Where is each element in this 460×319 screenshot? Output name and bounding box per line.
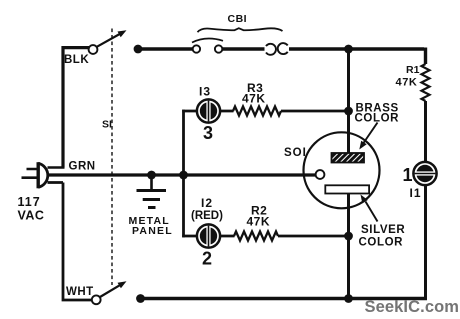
svg-text:BLK: BLK <box>64 54 89 66</box>
svg-text:COLOR: COLOR <box>359 237 404 249</box>
svg-text:47K: 47K <box>242 92 266 106</box>
wire: bottom bus <box>141 297 428 300</box>
wire: top bus from S1 dot to CB1 contacts <box>138 47 193 50</box>
svg-text:SOI: SOI <box>284 147 307 159</box>
wire: GRN line from plug to socket pin <box>49 173 316 176</box>
socket SO1 silver contact <box>325 185 369 193</box>
wire: BLK vertical left rail <box>63 48 89 168</box>
resistor R1 <box>422 64 430 101</box>
svg-text:SI: SI <box>102 119 112 131</box>
wire: breaker rings to top-right corner <box>289 48 426 65</box>
node: GRN / lamp branch <box>179 171 188 180</box>
node: GRN / ground <box>147 171 156 180</box>
resistor R3 <box>233 107 281 116</box>
svg-text:1: 1 <box>403 165 413 185</box>
switch S1 mechanical link (dashed) <box>111 29 113 286</box>
node: bottom bus / silver drop <box>344 294 353 303</box>
svg-text:I1: I1 <box>410 186 422 200</box>
svg-text:VAC: VAC <box>18 209 45 223</box>
socket SO1 brass contact <box>332 153 365 163</box>
circuit breaker CB1: actuator arc <box>192 39 223 43</box>
plug P1 117 VAC <box>22 162 48 188</box>
svg-text:CBI: CBI <box>228 13 248 25</box>
circuit breaker CB1: interlocked rings <box>266 44 276 55</box>
svg-text:PANEL: PANEL <box>132 225 173 237</box>
lamp I3 <box>197 99 220 122</box>
svg-text:WHT: WHT <box>66 286 94 298</box>
node: top bus / brass drop <box>344 45 353 54</box>
wire: vertical branch I3 to I2 <box>182 110 185 238</box>
node: R3 / brass drop <box>344 107 353 116</box>
wire: silver drop from socket to bottom bus <box>347 193 350 300</box>
svg-text:SeekIC.com: SeekIC.com <box>365 298 460 316</box>
wire: right rail R1/I1 <box>424 101 427 299</box>
ground (metal panel) <box>137 176 167 208</box>
svg-text:2: 2 <box>202 249 212 269</box>
socket SO1 side pin <box>316 170 325 179</box>
wire: brass drop from top bus into socket <box>347 48 350 155</box>
svg-text:R1: R1 <box>406 64 420 76</box>
svg-text:117: 117 <box>18 195 41 209</box>
svg-text:47K: 47K <box>247 215 271 229</box>
lamp I2 <box>197 224 220 247</box>
wire: R3 output to brass node <box>281 110 350 113</box>
socket SO1 body <box>304 132 380 208</box>
svg-text:47K: 47K <box>396 77 418 89</box>
wire: I2 leads <box>182 235 234 238</box>
svg-text:I3: I3 <box>199 85 211 99</box>
wire: CB1 contacts to breaker rings <box>222 47 264 50</box>
wire: plug bottom lead and WHT rail <box>48 183 92 301</box>
svg-text:3: 3 <box>203 123 213 143</box>
brace for CB1 <box>198 28 283 32</box>
wire: R2 output to silver node <box>278 235 350 238</box>
node: bottom bus at WHT switch <box>136 294 145 303</box>
wire: plug top lead to BLK rail <box>48 166 65 169</box>
switch S1 upper pole (BLK) <box>89 45 98 54</box>
wire: I3 leads <box>182 110 233 113</box>
resistor R2 <box>234 232 278 241</box>
switch S1 lower pole (WHT) <box>92 295 101 304</box>
lamp I1 <box>413 162 436 185</box>
svg-text:SILVER: SILVER <box>361 224 405 236</box>
svg-text:(RED): (RED) <box>191 210 223 222</box>
node: R2 / silver drop <box>344 232 353 241</box>
svg-text:I2: I2 <box>201 196 213 210</box>
svg-text:GRN: GRN <box>69 161 96 173</box>
node: top bus junction at S1 <box>134 45 143 54</box>
circuit breaker CB1: open contacts <box>193 45 200 52</box>
